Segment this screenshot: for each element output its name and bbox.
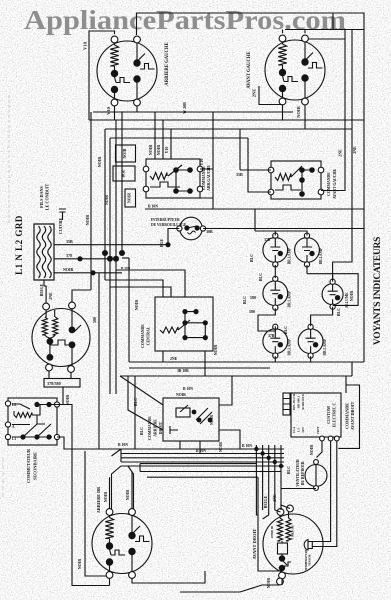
svg-text:SECONDAIRE: SECONDAIRE <box>33 452 38 480</box>
svg-text:AVANT DROIT: AVANT DROIT <box>350 402 355 431</box>
svg-text:580: 580 <box>249 309 255 314</box>
svg-text:NOIR: NOIR <box>148 145 153 156</box>
svg-text:NOIR: NOIR <box>213 345 218 356</box>
svg-text:BLC: BLC <box>283 326 288 334</box>
svg-text:LE CONDUIT: LE CONDUIT <box>45 184 50 211</box>
svg-text:NOIR: NOIR <box>134 300 139 311</box>
svg-text:B 10N: B 10N <box>121 266 131 270</box>
svg-text:2NE: 2NE <box>272 494 277 502</box>
svg-text:NOIR/RED: NOIR/RED <box>301 393 305 410</box>
svg-text:378: 378 <box>66 253 72 258</box>
svg-text:CUIVRE: CUIVRE <box>58 218 63 235</box>
svg-text:NOIR: NOIR <box>266 578 271 589</box>
svg-text:CL2: CL2 <box>292 426 296 433</box>
svg-text:378/580: 378/580 <box>47 381 61 386</box>
svg-text:30B: 30B <box>206 229 213 234</box>
svg-text:A: A <box>12 425 15 429</box>
svg-text:DEL/BLCH: DEL/BLCH <box>292 393 296 410</box>
svg-text:580: 580 <box>250 295 256 300</box>
svg-text:L1: L1 <box>12 437 16 441</box>
svg-text:2NE: 2NE <box>352 146 357 154</box>
svg-text:BEIGE: BEIGE <box>39 283 44 296</box>
svg-text:VOYANTS INDICATEURS: VOYANTS INDICATEURS <box>373 237 383 345</box>
svg-text:COMMUTATEUR: COMMUTATEUR <box>26 448 31 483</box>
svg-text:B 10N: B 10N <box>183 387 193 391</box>
svg-text:NOIR: NOIR <box>349 291 354 302</box>
svg-text:2NE: 2NE <box>170 357 178 361</box>
svg-text:BR 100.1: BR 100.1 <box>297 395 301 408</box>
svg-text:SENSOR: SENSOR <box>309 553 312 565</box>
svg-text:NOIR: NOIR <box>156 145 161 156</box>
svg-text:AVANT GAUCHE: AVANT GAUCHE <box>333 169 337 200</box>
svg-text:COMMANDE: COMMANDE <box>141 324 145 348</box>
svg-text:B 10N: B 10N <box>242 444 252 448</box>
svg-text:35B: 35B <box>236 172 243 177</box>
svg-text:COMMANDE: COMMANDE <box>327 172 331 196</box>
svg-text:BR.LAMP: BR.LAMP <box>323 338 327 355</box>
svg-text:BLC: BLC <box>286 466 291 474</box>
svg-text:COMMANDE: COMMANDE <box>202 166 206 190</box>
svg-text:2NE: 2NE <box>338 149 343 157</box>
svg-text:L1 N L2 GRD: L1 N L2 GRD <box>14 215 24 275</box>
svg-text:INTERRUPTEUR: INTERRUPTEUR <box>151 218 180 222</box>
svg-text:NOIR: NOIR <box>77 559 82 570</box>
svg-text:NOIR: NOIR <box>219 442 223 452</box>
svg-text:ARRIERE GAUCHE: ARRIERE GAUCHE <box>165 42 170 85</box>
svg-text:BGE: BGE <box>159 238 164 247</box>
svg-text:BR.LAMP: BR.LAMP <box>288 338 292 355</box>
svg-text:BLC: BLC <box>336 308 341 316</box>
svg-text:DROIT: DROIT <box>159 421 163 434</box>
svg-text:37B: 37B <box>268 334 275 338</box>
svg-text:BLC: BLC <box>258 273 263 281</box>
svg-text:NOIR: NOIR <box>105 195 109 205</box>
svg-text:37B: 37B <box>264 238 271 242</box>
svg-text:1 MED 20E: 1 MED 20E <box>292 525 295 539</box>
svg-text:NOIR: NOIR <box>309 445 314 456</box>
svg-text:NOIR: NOIR <box>85 215 90 226</box>
svg-text:NOIR: NOIR <box>176 393 186 397</box>
svg-text:HOT: HOT <box>316 425 320 433</box>
svg-text:580: 580 <box>92 317 97 323</box>
svg-text:NOIR: NOIR <box>63 267 74 272</box>
svg-text:W 20B: W 20B <box>182 102 187 114</box>
svg-text:B 10N: B 10N <box>196 449 206 453</box>
svg-text:BEIGE: BEIGE <box>263 495 268 508</box>
svg-text:AVANT DROIT: AVANT DROIT <box>252 529 257 560</box>
svg-text:Y10: Y10 <box>199 159 204 166</box>
svg-text:BLC: BLC <box>139 427 144 435</box>
svg-text:BR.LAMP: BR.LAMP <box>288 290 292 307</box>
svg-text:NOIR: NOIR <box>128 193 132 203</box>
svg-text:NOIR: NOIR <box>65 395 70 406</box>
svg-text:2NE: 2NE <box>48 292 53 300</box>
svg-text:NOIR: NOIR <box>123 148 127 158</box>
svg-text:BLC: BLC <box>249 254 254 262</box>
svg-text:BGE: BGE <box>122 169 126 177</box>
svg-text:BLC: BLC <box>242 296 247 304</box>
svg-text:Y10: Y10 <box>164 147 169 154</box>
svg-text:ELECTRIC C: ELECTRIC C <box>332 403 337 428</box>
svg-text:AVANT GAUCHE: AVANT GAUCHE <box>247 51 252 88</box>
svg-text:35B: 35B <box>66 239 73 244</box>
svg-text:2NE: 2NE <box>252 89 257 98</box>
svg-text:L2: L2 <box>12 403 16 407</box>
svg-text:NOIR: NOIR <box>210 415 214 425</box>
svg-text:BLC: BLC <box>133 398 138 406</box>
svg-text:DE VERROUILLAGE: DE VERROUILLAGE <box>151 223 187 227</box>
svg-text:B 10N: B 10N <box>148 205 158 209</box>
svg-text:NOIR: NOIR <box>103 492 108 503</box>
svg-text:V10: V10 <box>106 106 111 114</box>
svg-text:NOIR: NOIR <box>97 157 102 168</box>
svg-text:VENTILATEUR: VENTILATEUR <box>296 459 300 487</box>
svg-text:287RD 5B: 287RD 5B <box>271 526 274 538</box>
svg-text:NOIR: NOIR <box>125 490 130 501</box>
svg-text:ARRIERE DR: ARRIERE DR <box>96 486 101 513</box>
svg-text:BR.LAMP: BR.LAMP <box>288 247 292 264</box>
svg-text:COMMANDE: COMMANDE <box>345 403 350 429</box>
svg-text:B 10N: B 10N <box>118 443 128 447</box>
svg-text:3B 10B: 3B 10B <box>177 369 189 373</box>
svg-text:ARR.GAUCHE: ARR.GAUCHE <box>207 165 211 191</box>
svg-text:L1: L1 <box>297 428 301 432</box>
svg-text:NOIR: NOIR <box>296 105 301 118</box>
svg-text:COMMANDE: COMMANDE <box>148 416 152 440</box>
svg-text:DE REFROID.: DE REFROID. <box>301 461 305 486</box>
svg-text:ON: ON <box>301 427 305 433</box>
svg-text:CUSTOM: CUSTOM <box>326 406 331 424</box>
svg-text:V10: V10 <box>83 41 88 49</box>
svg-text:BR.LAMP: BR.LAMP <box>319 247 323 264</box>
svg-text:CENTRAL: CENTRAL <box>147 326 151 345</box>
svg-text:FILS DANS: FILS DANS <box>39 185 44 207</box>
svg-text:ARRIERE: ARRIERE <box>154 419 158 437</box>
svg-text:AppliancePartsPros.com: AppliancePartsPros.com <box>24 5 347 35</box>
